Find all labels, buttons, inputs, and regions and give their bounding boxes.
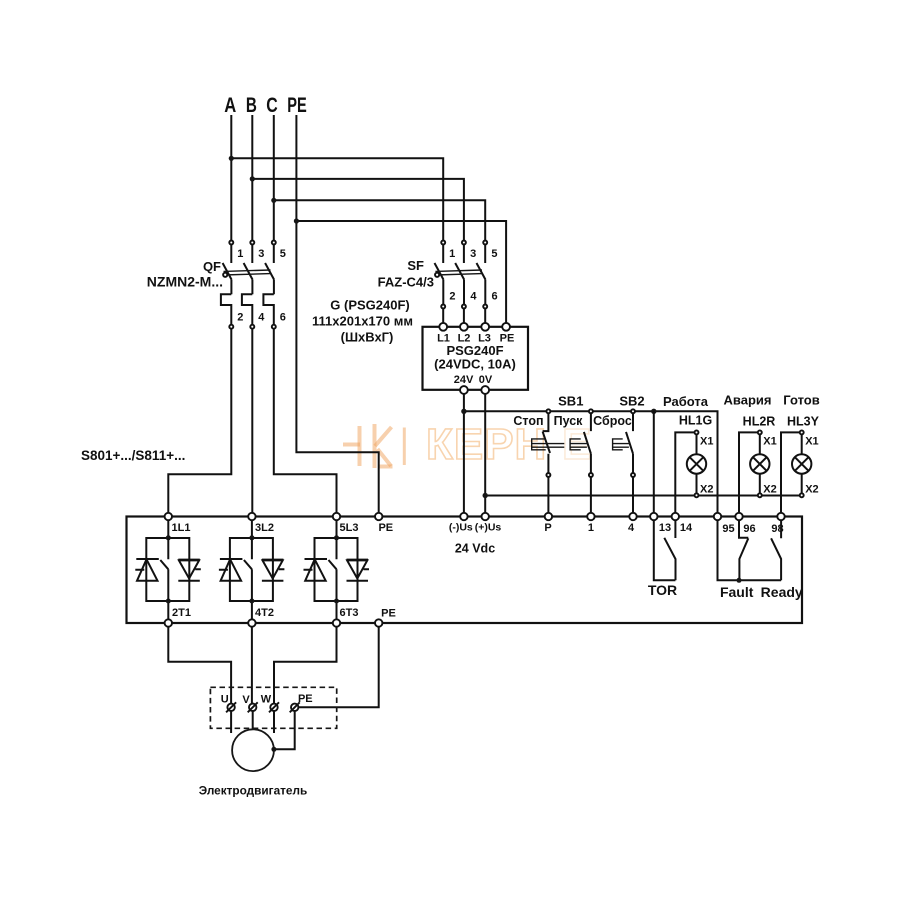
PSG terminal PE [502,323,510,331]
SF pole 3 bottom terminal [483,305,487,309]
Stop actuator symbol [532,439,565,450]
SF pole 2 lead and blade [455,245,464,305]
svg-text:Fault: Fault [720,584,754,600]
thyristor module 2 box [230,538,273,601]
terminal 1 [587,513,594,520]
QF mechanical crossbar [224,270,271,275]
wire phase C vertical [273,115,275,241]
svg-text:QF: QF [203,259,221,274]
QF pole 1 lead and blade [223,245,232,295]
SF pole 1 top terminal [441,241,445,245]
terminal (+)Us [482,513,489,520]
wire PE vertical and jog to main box PE [296,115,378,513]
wire tap PE to PSG240F PE input [296,221,506,323]
terminal P [545,513,552,520]
svg-text:HL1G: HL1G [679,414,712,428]
wire 24V output down to (-)Us [463,394,465,513]
svg-text:6: 6 [492,291,498,303]
svg-text:Стоп: Стоп [513,414,543,428]
junction dot Fault common [737,578,742,583]
svg-text:X1: X1 [763,436,776,448]
terminal 4 [629,513,636,520]
svg-text:6: 6 [280,312,286,324]
terminal 96 [735,513,742,520]
QF pole 1 thermal overload element [221,294,231,325]
QF pole 2 top terminal [250,241,254,245]
SF pole 2 bottom terminal [462,305,466,309]
thyristor module 2 feed wires [251,520,253,619]
svg-text:U: U [221,693,229,705]
terminal 1L1 [165,513,172,520]
PSG output terminal 24V [460,386,468,394]
junction dot motor PE [271,747,276,752]
lamp HL1G X2 terminal circle [695,493,699,497]
svg-text:1L1: 1L1 [172,522,191,534]
terminal PE top [375,513,382,520]
thyristor module 2 top junction [249,535,254,540]
svg-text:PE: PE [287,94,307,117]
lamp HL2R X1 terminal circle [758,430,762,434]
pushbutton SB1 Pusk NO contact [584,413,591,513]
svg-text:X2: X2 [763,484,776,496]
wire terminal 96 to lamp HL2R X1 [739,432,758,513]
junction dot B tap [250,176,255,181]
SF pole 2 top terminal [462,241,466,245]
motor lead U [230,711,232,733]
thyristor V3 left SCR [304,559,328,581]
junction dot 24V rail to terminal 13 [651,409,656,414]
QF pole 3 top terminal [272,241,276,245]
thyristor V1 right SCR [178,560,201,581]
Stop contact mid circle [546,473,550,477]
QF pole 2 thermal overload element [242,294,252,325]
svg-text:SB2: SB2 [619,394,644,409]
svg-text:TOR: TOR [648,582,677,598]
svg-text:SF: SF [407,258,424,273]
SF pole 3 top terminal [483,241,487,245]
thyristor V1 left SCR [135,559,159,581]
QF pole 1 bottom terminal [229,325,233,329]
thyristor module 2 bottom junction [249,599,254,604]
rail tap circle Stop [546,409,550,413]
motor lead W [273,711,275,733]
svg-text:V: V [242,694,250,706]
svg-text:PE: PE [381,608,396,620]
wire PE to motor PE [298,627,378,708]
QF pole 3 bottom terminal [272,325,276,329]
svg-text:5: 5 [280,248,286,260]
terminal (-)Us [460,513,467,520]
QF pivot circle [223,273,227,277]
power supply U1 PSG240F box [423,327,529,390]
TOR relay contact 13-14 [654,520,676,580]
thyristor module 1 bottom junction [166,599,171,604]
lamp HL2R [750,454,769,473]
svg-text:5L3: 5L3 [340,522,359,534]
lamp HL1G X1 terminal circle [695,430,699,434]
wire tap C to SF pole 3 [274,200,485,240]
svg-text:1: 1 [449,248,455,260]
junction dot A tap [229,156,234,161]
thyristor module 1 feed wires [167,520,169,619]
svg-text:95: 95 [722,523,734,535]
motor terminal PE [290,702,300,712]
wire QF pole2 to 3L2 [251,329,253,513]
svg-text:0V: 0V [479,374,493,386]
svg-text:24V: 24V [454,374,474,386]
Fault-Ready changeover contact 95-96-98 [718,520,782,580]
thyristor module 3 box [315,538,358,601]
wire 0V rail to lamps [485,495,802,497]
svg-text:S801+.../S811+...: S801+.../S811+... [81,448,185,463]
SF pole 1 lead and blade [435,245,444,305]
wire phase B vertical [251,115,253,241]
junction dot 0V rail start [483,493,488,498]
wire QF pole1 to 1L1 [168,329,231,513]
wire SF pole2 to L2 [463,309,465,323]
wire QF pole3 to 5L3 [274,329,337,513]
PSG terminal L1 [439,323,447,331]
svg-text:Готов: Готов [783,393,819,408]
wire SF pole3 to L3 [484,309,486,323]
SF pole 1 bottom terminal [441,305,445,309]
svg-text:4T2: 4T2 [255,607,274,619]
PSG output terminal 0V [481,386,489,394]
svg-text:1: 1 [237,248,243,260]
svg-text:X1: X1 [805,436,818,448]
svg-text:X2: X2 [700,484,713,496]
junction dot C tap [271,198,276,203]
terminal 6T3 [333,619,340,626]
terminal 5L3 [333,513,340,520]
motor lead PE [274,711,295,749]
terminal 13 [650,513,657,520]
svg-text:Ready: Ready [761,584,803,600]
thyristor module 1 top junction [166,535,171,540]
motor terminal V [248,702,258,712]
svg-text:14: 14 [680,522,693,534]
QF pole 1 top terminal [229,241,233,245]
Pusk contact mid circle [589,473,593,477]
SF pole 3 lead and blade [477,245,486,305]
junction dot 24V rail start [461,409,466,414]
terminal 4T2 [248,619,255,626]
junction dot PE tap [294,218,299,223]
svg-text:96: 96 [743,523,755,535]
wire tap B to SF pole 2 [252,179,464,241]
thyristor module 1 box [146,538,189,601]
motor lead V [252,711,254,729]
QF pole 2 bottom terminal [250,325,254,329]
wire 0V output down to (+)Us [484,394,486,513]
svg-text:Пуск: Пуск [554,414,584,428]
rail tap circle Pusk [589,409,593,413]
pushbutton SB2 Sbros NO contact [626,413,633,513]
PSG terminal L2 [460,323,468,331]
svg-text:Авария: Авария [724,393,772,408]
wire 4T2 to motor V [251,627,253,704]
svg-text:3: 3 [258,248,264,260]
svg-text:6T3: 6T3 [340,607,359,619]
svg-text:4: 4 [258,312,265,324]
svg-text:X2: X2 [805,484,818,496]
terminal 2T1 [165,619,172,626]
svg-text:3L2: 3L2 [255,522,274,534]
QF pole 2 lead and blade [244,245,253,295]
SF mechanical crossbar [435,270,482,275]
svg-text:PE: PE [378,522,393,534]
motor terminal U [226,702,236,712]
wire terminal 98 to lamp HL3Y X1 [781,432,800,513]
terminal PE bottom [375,619,382,626]
svg-text:(ШхВхГ): (ШхВхГ) [341,330,394,345]
svg-text:Сброс: Сброс [593,414,632,428]
thyristor module 1 center link [160,538,168,601]
thyristor module 2 center link [244,538,252,601]
thyristor V2 left SCR [219,559,243,581]
pushbutton SB1 Stop NC contact [543,413,550,513]
svg-text:2T1: 2T1 [172,607,191,619]
svg-text:(-)Us: (-)Us [449,522,473,534]
motor terminal W [269,702,279,712]
wire 24V control rail [464,411,718,513]
svg-text:NZMN2-M...: NZMN2-M... [147,273,223,289]
wire terminal 14 to lamp HL1G X1 [675,432,694,513]
lamp HL2R branch wires [759,434,761,493]
svg-text:1: 1 [588,522,594,534]
svg-text:(24VDC, 10A): (24VDC, 10A) [434,357,516,372]
SF pivot circle [435,273,439,277]
lamp HL1G branch wires [696,434,698,493]
svg-text:P: P [544,522,551,534]
svg-text:G (PSG240F): G (PSG240F) [330,298,409,313]
wire 2T1 to motor U [168,627,231,704]
svg-text:2: 2 [449,291,455,303]
svg-text:Работа: Работа [663,394,709,409]
watermark separator bar [403,428,406,466]
svg-text:HL3Y: HL3Y [787,415,820,429]
wire rail to terminal 13 [653,411,655,513]
motor M1 circle [232,729,274,771]
terminal 3L2 [248,513,255,520]
terminal 95 [714,513,721,520]
terminal 14 [672,513,679,520]
thyristor module 3 bottom junction [334,599,339,604]
wire phase A vertical [230,115,232,241]
svg-text:HL2R: HL2R [743,415,776,429]
svg-text:3: 3 [470,248,476,260]
wire 6T3 to motor W [274,627,337,704]
thyristor module 3 feed wires [336,520,338,619]
svg-text:C: C [266,94,278,117]
lamp HL3Y [792,454,811,473]
svg-text:24 Vdc: 24 Vdc [455,542,495,556]
svg-text:2: 2 [237,312,243,324]
rail tap circle Sbros [631,409,635,413]
PSG terminal L3 [481,323,489,331]
QF pole 3 lead and blade [265,245,274,295]
thyristor module 3 top junction [334,535,339,540]
thyristor module 3 center link [329,538,337,601]
lamp HL2R X2 terminal circle [758,493,762,497]
thyristor V3 right SCR [347,560,370,581]
wire SF pole1 to L1 [442,309,444,323]
lamp HL3Y X2 terminal circle [800,493,804,497]
svg-text:(+)Us: (+)Us [475,522,502,534]
Sbros contact mid circle [631,473,635,477]
lamp HL1G [687,454,706,473]
svg-text:B: B [246,94,257,117]
thyristor V2 right SCR [262,560,285,581]
terminal 98 [777,513,784,520]
lamp HL3Y X1 terminal circle [800,430,804,434]
soft starter A1 main box [127,517,803,624]
QF pole 3 thermal overload element [263,294,273,325]
svg-text:A: A [224,94,236,117]
lamp HL3Y branch wires [801,434,803,493]
svg-text:4: 4 [470,291,477,303]
wire tap A to SF pole 1 [231,158,443,240]
svg-text:Электродвигатель: Электродвигатель [199,784,308,798]
svg-text:W: W [261,693,272,705]
svg-text:X1: X1 [700,436,713,448]
svg-text:13: 13 [659,522,671,534]
svg-text:111х201х170 мм: 111х201х170 мм [312,314,413,329]
svg-text:FAZ-C4/3: FAZ-C4/3 [378,275,434,290]
svg-text:SB1: SB1 [558,394,583,409]
svg-text:4: 4 [628,522,635,534]
Sbros actuator symbol [613,439,629,450]
watermark logo HK [343,424,393,468]
svg-text:5: 5 [491,248,497,260]
Pusk actuator symbol [570,439,587,450]
motor terminal box dashed [210,687,336,728]
